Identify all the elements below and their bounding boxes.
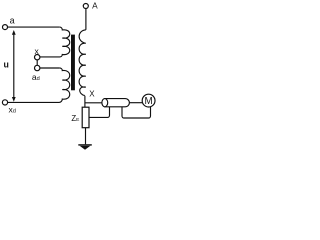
svg-text:u: u <box>4 59 9 69</box>
svg-text:M: M <box>145 96 153 107</box>
terminal x <box>35 55 40 60</box>
return wire cable sheath to motor <box>122 107 151 118</box>
ground <box>78 144 92 146</box>
svg-text:ad: ad <box>32 72 40 82</box>
core <box>71 35 75 91</box>
wire a to left winding <box>8 26 60 28</box>
wire winding bottom to Z_E (node X) <box>84 96 86 108</box>
svg-text:a: a <box>10 15 15 25</box>
right winding A-X <box>79 30 86 96</box>
voltage arrow u <box>13 34 15 99</box>
left winding top section a-x <box>40 27 70 57</box>
left winding bottom section a_d-x_d <box>8 68 70 102</box>
terminal a_d <box>35 65 40 70</box>
impedance Z_E <box>82 107 89 128</box>
wire node X to cable <box>85 102 102 104</box>
terminal a <box>3 25 8 30</box>
cable left end <box>102 99 108 107</box>
terminal A <box>83 4 88 9</box>
wire Z_E to ground <box>85 128 87 145</box>
svg-text:ZE: ZE <box>71 114 79 123</box>
wire cable to motor <box>129 102 142 104</box>
motor M <box>142 94 155 107</box>
svg-text:xd: xd <box>9 105 16 115</box>
wire A down to right winding <box>85 9 87 30</box>
link x to a_d <box>36 60 38 65</box>
cable body <box>105 99 130 107</box>
wire a_d to left winding <box>40 67 60 69</box>
svg-text:A: A <box>92 0 98 10</box>
svg-text:X: X <box>89 90 95 99</box>
return wire cable sheath to Z_E <box>89 107 110 117</box>
terminal x_d <box>2 100 7 105</box>
